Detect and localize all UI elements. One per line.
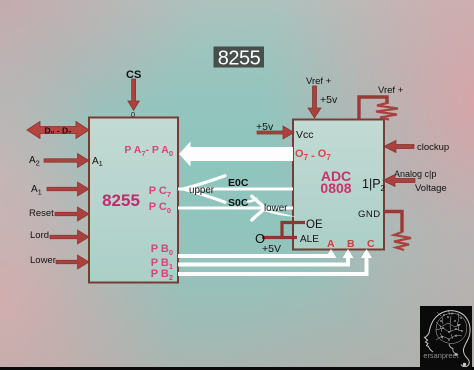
svg-text:GND: GND (358, 209, 381, 220)
svg-text:S0C: S0C (228, 197, 249, 209)
svg-text:Lower: Lower (30, 255, 56, 266)
bus arrow D0-D7 (27, 122, 89, 139)
arrow Reset into U1 (55, 207, 89, 221)
svg-text:B: B (347, 238, 355, 250)
arrow A2 into U1 (44, 154, 89, 168)
svg-text:A1: A1 (31, 184, 42, 197)
wire OE/ALE to +5V terminal (262, 223, 305, 238)
svg-text:ALE: ALE (300, 234, 319, 245)
arrow Analog input into U2 (383, 175, 415, 187)
title box 8255 (214, 47, 265, 70)
arrow clockup into U2 (384, 141, 414, 153)
svg-text:D₀ - D₇: D₀ - D₇ (44, 126, 72, 136)
svg-text:E0C: E0C (228, 177, 249, 189)
svg-text:ersanpreet: ersanpreet (423, 351, 458, 360)
arrow CS into U1 (128, 79, 140, 111)
svg-text:Reset: Reset (29, 208, 54, 219)
svg-text:upper: upper (189, 185, 215, 196)
wire PB0 to A (178, 249, 337, 258)
svg-text:Vcc: Vcc (296, 129, 314, 141)
arrow lower (SOC direction) (248, 196, 297, 220)
svg-text:O7 - O7: O7 - O7 (295, 148, 331, 162)
arrow Lord into U1 (50, 230, 89, 244)
svg-text:0: 0 (131, 110, 135, 119)
svg-text:Vref +: Vref + (378, 85, 404, 96)
svg-text:+5v: +5v (320, 94, 338, 106)
bottom black bar (0, 367, 474, 370)
svg-text:A: A (327, 238, 335, 250)
svg-text:+5V: +5V (262, 243, 281, 255)
arrow Lower into U1 (56, 255, 89, 269)
arrow upper (EOC direction) (178, 176, 225, 202)
svg-text:clockup: clockup (417, 142, 449, 153)
watermark logo (420, 306, 472, 370)
arrow A1 into U1 (47, 182, 89, 196)
terminal O +5V (255, 231, 281, 255)
svg-text:A2: A2 (29, 155, 40, 168)
svg-text:OE: OE (306, 219, 323, 231)
svg-text:8255: 8255 (218, 48, 261, 70)
wire Vref right with resistor R1 (359, 97, 398, 120)
svg-text:P A7- P A0: P A7- P A0 (124, 144, 173, 158)
IC U2 ADC0808 body (293, 120, 384, 250)
wire SOC (178, 207, 293, 210)
svg-text:Analog c|p: Analog c|p (394, 169, 436, 179)
arrow +5v into Vcc (257, 126, 294, 139)
IC U1 8255 body (89, 118, 178, 283)
wire GND with resistor R2 (384, 212, 411, 251)
wire PB2 to C (178, 249, 372, 276)
arrow Vref/+5v into U2 top (308, 86, 321, 118)
svg-text:Vref +: Vref + (306, 76, 332, 87)
svg-text:Lord: Lord (30, 230, 49, 241)
wire EOC (178, 188, 293, 191)
svg-text:Voltage: Voltage (415, 183, 447, 194)
svg-text:8255: 8255 (102, 191, 140, 210)
wire PB1 to B (178, 249, 354, 267)
svg-text:C: C (367, 238, 375, 250)
svg-text:0808: 0808 (320, 180, 351, 196)
svg-text:lower: lower (264, 203, 288, 214)
bus arrow PA7-PA0 (ADC data to 8255) (179, 142, 293, 167)
